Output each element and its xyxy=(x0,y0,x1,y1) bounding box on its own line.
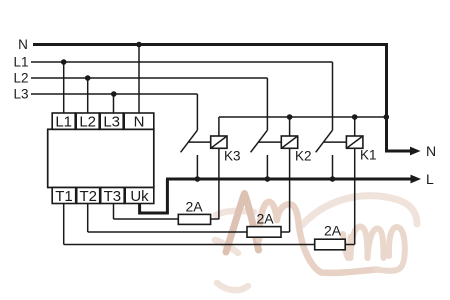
svg-text:N: N xyxy=(134,114,145,131)
svg-text:L3: L3 xyxy=(13,86,28,101)
svg-text:L2: L2 xyxy=(79,114,96,131)
svg-text:2A: 2A xyxy=(256,211,274,227)
svg-text:L1: L1 xyxy=(55,114,72,131)
svg-text:2A: 2A xyxy=(185,199,203,215)
svg-text:N: N xyxy=(426,143,436,159)
svg-text:T2: T2 xyxy=(79,188,97,205)
svg-text:T1: T1 xyxy=(55,188,73,205)
svg-text:N: N xyxy=(18,37,28,52)
svg-text:L3: L3 xyxy=(103,114,120,131)
svg-text:K2: K2 xyxy=(295,149,312,164)
svg-text:K1: K1 xyxy=(360,148,377,163)
svg-text:L1: L1 xyxy=(13,54,28,69)
svg-text:K3: K3 xyxy=(224,149,241,164)
svg-text:Uk: Uk xyxy=(130,188,149,205)
svg-text:L: L xyxy=(426,171,434,187)
svg-text:L2: L2 xyxy=(13,70,28,85)
svg-text:T3: T3 xyxy=(104,188,122,205)
svg-text:2A: 2A xyxy=(324,223,342,239)
